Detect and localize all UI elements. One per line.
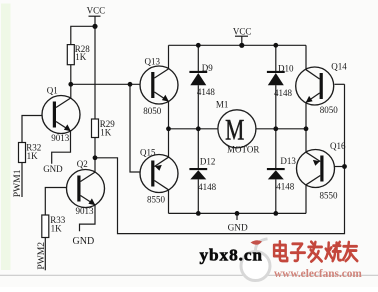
wire: Q16 base (335, 166, 345, 168)
svg-text:M1: M1 (216, 99, 229, 109)
wire: Q13 emitter down (168, 101, 170, 128)
svg-text:1K: 1K (100, 127, 112, 137)
svg-text:4148: 4148 (197, 87, 216, 97)
svg-text:GND: GND (73, 236, 95, 247)
watermark chinese characters 电子发烧友 (274, 241, 357, 261)
svg-text:8550: 8550 (147, 195, 166, 205)
wire: Q1 emitter to GND (52, 131, 71, 164)
svg-text:8050: 8050 (143, 106, 162, 116)
svg-text:Q14: Q14 (331, 61, 347, 71)
junction: Q16 base node (342, 164, 347, 169)
wire: D12 bottom (197, 179, 199, 213)
wire: Q2 emitter to GND (80, 205, 96, 231)
wire: Q15 collector down (168, 190, 170, 214)
junction: VCC stub on rail (239, 43, 244, 48)
wire: D10 top (275, 45, 277, 71)
svg-text:1K: 1K (27, 151, 38, 161)
junction: VCC node left (92, 24, 97, 29)
motor M1 (216, 99, 259, 154)
svg-text:Q13: Q13 (145, 56, 161, 66)
svg-text:Q2: Q2 (77, 159, 88, 169)
svg-text:M: M (225, 113, 244, 146)
wire: D9 bottom to mid node (197, 85, 199, 129)
junction: D13 bottom on GND rail (273, 211, 278, 216)
wire: R29 bottom to Q2 collector (94, 138, 96, 173)
diode D9 (189, 63, 215, 97)
VCC rail 1 symbol (89, 16, 101, 26)
svg-text:Q1: Q1 (47, 85, 58, 95)
wire: D10 bottom to mid node (275, 85, 277, 129)
wire: Q2 base to R33 (45, 188, 66, 216)
junction: Q13/Q15 base node (128, 82, 133, 87)
svg-text:ybx8.cn: ybx8.cn (200, 245, 263, 264)
wire: R28 bottom to Q1 collector (70, 65, 72, 98)
top rail VCC (169, 44, 307, 46)
wire: R33 bottom to PWM2 (44, 238, 46, 271)
transistor Q13 (NPN 8050) (140, 56, 178, 116)
wire: R32 bottom to PWM1 (21, 163, 23, 198)
wire: Q1 collector node to Q13/Q15 base line (71, 83, 140, 85)
wire: mid node to motor left (169, 128, 218, 130)
svg-text:9013: 9013 (51, 133, 70, 143)
svg-text:1K: 1K (75, 52, 87, 62)
transistor Q14 (NPN 8050, mirrored) (296, 61, 348, 115)
ground symbol bottom rail (236, 213, 238, 220)
svg-text:D10: D10 (278, 64, 294, 74)
wire: base line down to Q15 base (130, 84, 140, 172)
junction: D12 bottom on GND rail (196, 211, 201, 216)
svg-text:4148: 4148 (274, 88, 293, 98)
wire: D13 bottom (275, 179, 277, 213)
svg-text:VCC: VCC (233, 26, 252, 36)
wire: Q14 base (335, 83, 345, 85)
diode D10 (267, 64, 294, 99)
junction: D9 top on VCC rail (196, 43, 201, 48)
wire: Q13 collector (168, 45, 170, 69)
junction: D10 top on VCC rail (273, 43, 278, 48)
junction: Q1 collector node (68, 82, 73, 87)
wire: Q15 emitter up (168, 129, 170, 157)
resistor R28 (67, 44, 90, 65)
transistor Q1 (NPN 9013) (42, 85, 80, 143)
watermark logo swirl (241, 239, 270, 281)
svg-text:D9: D9 (202, 63, 213, 73)
wire: D13 top (275, 129, 277, 168)
wire: Q14 emitter down (305, 102, 307, 128)
bottom separator line (0, 274, 378, 276)
junction: D9/D12 mid node (196, 126, 201, 131)
svg-text:GND: GND (43, 164, 63, 174)
wire: Q2 collector node to Q14/Q16 bases (long return) (95, 84, 345, 233)
svg-text:4148: 4148 (276, 181, 295, 191)
svg-text:Q16: Q16 (330, 141, 346, 151)
resistor R29 (92, 119, 116, 138)
junction: motor right node at Q14/Q16 emitters (304, 126, 309, 131)
wire: VCC node to R28 (71, 26, 95, 44)
junction: GND stub on rail (235, 211, 240, 216)
diode D13 (267, 156, 296, 191)
resistor R33 (42, 215, 66, 238)
VCC rail 2 symbol (235, 36, 248, 45)
svg-text:MOTOR: MOTOR (227, 145, 259, 155)
wire: D9 top (197, 45, 199, 71)
junction: motor left node at Q13/Q15 emitters (166, 126, 171, 131)
svg-text:D12: D12 (200, 156, 216, 166)
diode D12 (189, 156, 216, 192)
svg-text:www.elecfans.com: www.elecfans.com (274, 268, 362, 280)
wire: Q16 emitter up (305, 129, 307, 153)
wire: Q14 collector (305, 45, 307, 69)
svg-text:Q15: Q15 (140, 148, 156, 158)
svg-text:8550: 8550 (320, 190, 339, 200)
transistor Q2 (NPN 9013) (67, 159, 105, 216)
svg-text:D13: D13 (280, 156, 296, 166)
wire: motor right to Q14/Q16 node (256, 128, 306, 130)
transistor Q16 (PNP 8550, mirrored) (297, 141, 346, 200)
svg-text:8050: 8050 (320, 105, 339, 115)
bottom rail GND (169, 212, 307, 214)
svg-text:1K: 1K (51, 224, 63, 234)
wire: D12 top (197, 129, 199, 168)
resistor R32 (19, 142, 42, 162)
svg-text:PWM2: PWM2 (36, 242, 47, 270)
svg-text:GND: GND (228, 224, 248, 234)
svg-text:PWM1: PWM1 (12, 169, 23, 197)
svg-text:9013: 9013 (76, 206, 95, 216)
junction: D10/D13 mid node (273, 126, 278, 131)
wire: Q1 base to R32 (22, 116, 42, 143)
svg-text:VCC: VCC (87, 6, 106, 16)
junction: Q2 collector node (93, 155, 98, 160)
wire: middle vertical VCC to R29 (94, 26, 96, 119)
transistor Q15 (PNP 8550) (140, 148, 178, 205)
svg-text:4148: 4148 (198, 182, 217, 192)
wire: Q16 collector down (305, 185, 307, 214)
left green strip (1, 4, 11, 271)
